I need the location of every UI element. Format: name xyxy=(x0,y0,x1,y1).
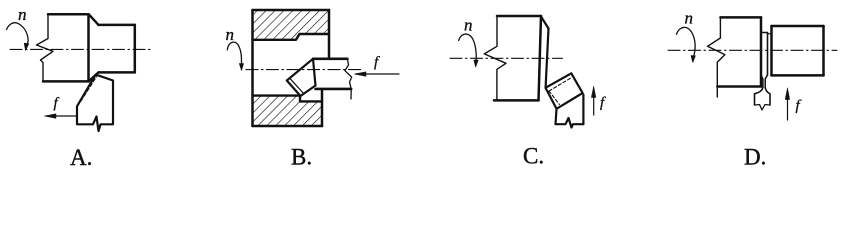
centerline C xyxy=(450,57,563,59)
hatch bottom wall xyxy=(253,96,323,126)
svg-text:n: n xyxy=(18,5,27,24)
svg-text:A.: A. xyxy=(70,145,92,170)
svg-text:C.: C. xyxy=(523,144,544,169)
neck surface stub xyxy=(768,33,772,35)
workpiece A: taper bottom xyxy=(89,72,99,81)
workpiece A: taper top xyxy=(89,15,99,25)
stock cylinder D: bottom edge xyxy=(717,85,761,88)
workpiece A: small cylinder top xyxy=(99,24,135,27)
workpiece C: corner chamfer xyxy=(541,17,549,29)
centerline B xyxy=(246,69,363,71)
boring head insert line xyxy=(290,79,303,94)
blade flare left xyxy=(755,88,763,106)
workpiece C: stock face xyxy=(546,29,549,88)
workpiece C: machined end face xyxy=(539,16,542,100)
cut-off piece D: bottom edge xyxy=(772,74,824,77)
boring bar bottom edge xyxy=(316,88,352,91)
svg-text:n: n xyxy=(685,9,694,28)
workpiece C: bottom edge xyxy=(494,99,539,102)
rotation arc n (A) xyxy=(7,23,29,44)
feed arrow C xyxy=(593,90,595,115)
boring bar top edge xyxy=(313,57,347,60)
feed arrow D xyxy=(787,92,789,120)
tool A outline xyxy=(77,75,113,131)
svg-text:n: n xyxy=(226,25,235,44)
cut-off piece D: top edge xyxy=(772,25,824,28)
blade flare right xyxy=(765,88,770,106)
svg-text:D.: D. xyxy=(744,144,766,169)
rotation arrowhead (B) xyxy=(239,64,243,71)
stock cylinder D: right face xyxy=(760,17,763,86)
workpiece A: shoulder vertical xyxy=(87,14,90,81)
tool A hidden edge (dashed) xyxy=(81,76,97,101)
blade stem right xyxy=(765,75,767,88)
tool C inner dashed edge left xyxy=(549,91,560,105)
break line (C left end) xyxy=(484,16,506,100)
workpiece B: bottom edge xyxy=(253,125,323,128)
rotation arrowhead (A) xyxy=(24,43,29,50)
bar break line xyxy=(345,59,352,99)
tool C shank xyxy=(556,95,584,128)
centerline D xyxy=(668,49,837,51)
centerline A xyxy=(10,48,152,50)
parting blade tip edge xyxy=(761,32,768,34)
rotation arrowhead (D) xyxy=(691,56,695,63)
stock cylinder D: top edge xyxy=(720,16,761,19)
feed arrow B xyxy=(356,73,399,75)
tool C square outline xyxy=(546,73,583,109)
workpiece A: bottom edge xyxy=(43,80,89,83)
boring head outline xyxy=(287,59,316,96)
bore bottom surface with step xyxy=(253,96,323,102)
rotation arc n (D) xyxy=(677,27,696,55)
workpiece A: right end edge xyxy=(134,25,137,73)
tool C inner dashed edge top xyxy=(549,78,570,91)
break line (A left end) xyxy=(37,14,54,81)
workpiece B: right face upper xyxy=(328,10,331,58)
hatch top wall xyxy=(253,10,330,40)
workpiece A: small cylinder bottom xyxy=(99,71,135,74)
workpiece B: right face lower xyxy=(321,89,324,126)
parting blade right side xyxy=(767,33,769,76)
cut-off piece D: left face xyxy=(770,26,773,75)
blade bottom break xyxy=(756,105,770,111)
feed arrow A xyxy=(47,115,78,117)
bore top surface with step xyxy=(253,34,330,40)
break line (D left end) xyxy=(708,17,725,97)
rotation arrowhead (C) xyxy=(474,60,478,67)
workpiece B: left edge xyxy=(251,10,254,126)
blade stem left xyxy=(761,75,763,88)
workpiece C: top edge xyxy=(497,15,541,18)
workpiece B: top edge xyxy=(253,9,330,12)
rotation arc n (C) xyxy=(459,34,477,59)
rotation arc n (B) xyxy=(227,42,241,63)
svg-text:n: n xyxy=(464,15,473,34)
workpiece A: top edge xyxy=(48,13,89,16)
cut-off piece D: right edge xyxy=(822,26,825,75)
svg-text:B.: B. xyxy=(291,144,312,169)
